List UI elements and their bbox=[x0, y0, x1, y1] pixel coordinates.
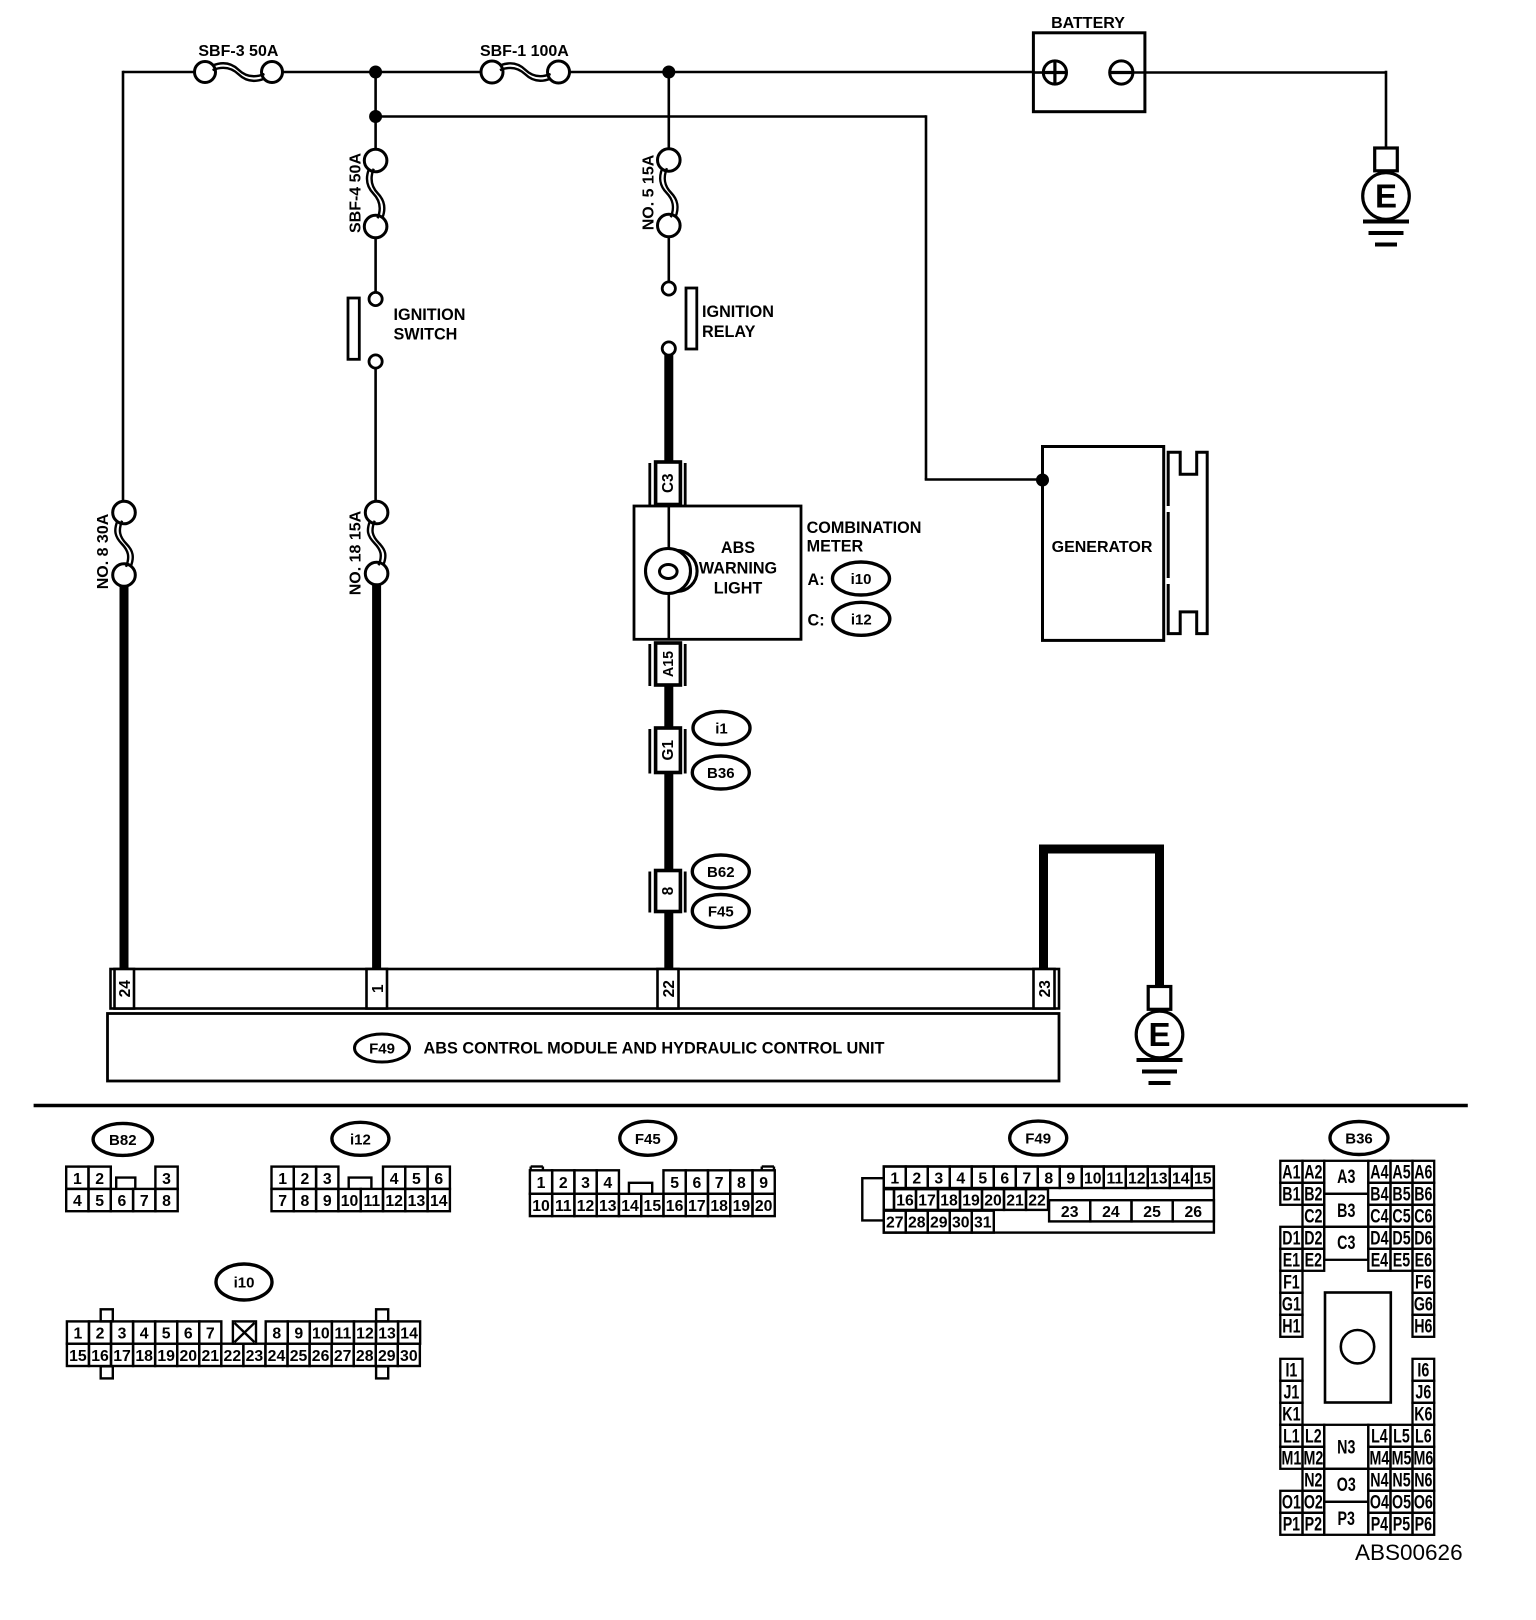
svg-text:4: 4 bbox=[140, 1326, 149, 1343]
svg-text:N6: N6 bbox=[1414, 1470, 1432, 1491]
svg-text:9: 9 bbox=[1066, 1170, 1075, 1187]
svg-text:24: 24 bbox=[268, 1348, 286, 1365]
svg-text:A3: A3 bbox=[1337, 1166, 1355, 1187]
connector ref i10 oval bbox=[833, 562, 890, 595]
svg-text:10: 10 bbox=[312, 1326, 330, 1343]
svg-text:14: 14 bbox=[1172, 1170, 1190, 1187]
svg-text:19: 19 bbox=[962, 1193, 980, 1210]
svg-text:12: 12 bbox=[577, 1198, 595, 1215]
svg-text:19: 19 bbox=[157, 1348, 175, 1365]
wire ignition branch thick to pin 1 bbox=[372, 584, 381, 971]
svg-text:6: 6 bbox=[184, 1326, 193, 1343]
svg-text:METER: METER bbox=[807, 538, 864, 556]
node junction at ignition branch top bbox=[369, 66, 382, 79]
svg-text:B82: B82 bbox=[109, 1132, 137, 1149]
svg-text:M4: M4 bbox=[1370, 1448, 1390, 1469]
svg-text:O2: O2 bbox=[1304, 1492, 1323, 1513]
svg-text:26: 26 bbox=[312, 1348, 330, 1365]
svg-text:22: 22 bbox=[1028, 1193, 1046, 1210]
fuse SBF-3 50A bbox=[195, 62, 283, 83]
connector ref B36 oval bbox=[692, 756, 749, 789]
svg-text:4: 4 bbox=[390, 1171, 399, 1188]
connector ref F49 oval (unit) bbox=[355, 1034, 410, 1062]
svg-text:NO. 18 15A: NO. 18 15A bbox=[348, 510, 365, 595]
wire A15 to G1 (thick) bbox=[664, 685, 673, 729]
svg-text:C3: C3 bbox=[1337, 1232, 1355, 1253]
svg-text:D4: D4 bbox=[1370, 1228, 1389, 1249]
svg-text:24: 24 bbox=[1102, 1204, 1120, 1221]
svg-text:B3: B3 bbox=[1337, 1200, 1355, 1221]
svg-text:NO. 8 30A: NO. 8 30A bbox=[95, 513, 112, 589]
svg-text:4: 4 bbox=[956, 1170, 965, 1187]
svg-text:25: 25 bbox=[1143, 1204, 1161, 1221]
connector B36 oval bbox=[1330, 1122, 1388, 1155]
wire junction drop bbox=[374, 72, 377, 117]
wire between SBF-3 and SBF-1 bbox=[283, 71, 482, 74]
svg-text:5: 5 bbox=[162, 1326, 171, 1343]
svg-text:L1: L1 bbox=[1283, 1426, 1300, 1447]
svg-text:SBF-1 100A: SBF-1 100A bbox=[480, 43, 569, 60]
svg-text:E2: E2 bbox=[1305, 1250, 1322, 1271]
connector i12 pin grid bbox=[272, 1167, 450, 1212]
svg-text:2: 2 bbox=[301, 1171, 310, 1188]
svg-text:G6: G6 bbox=[1414, 1294, 1433, 1315]
pin 24 bbox=[115, 969, 135, 1009]
svg-text:22: 22 bbox=[661, 980, 678, 997]
svg-text:N3: N3 bbox=[1337, 1437, 1355, 1458]
svg-text:12: 12 bbox=[1128, 1170, 1146, 1187]
ignition relay body bbox=[686, 288, 697, 349]
svg-text:1: 1 bbox=[537, 1175, 546, 1192]
svg-text:L2: L2 bbox=[1305, 1426, 1322, 1447]
combination meter box bbox=[634, 506, 801, 639]
ground E (ABS unit) bbox=[1136, 987, 1183, 1084]
ABS warning light bulb bbox=[656, 550, 697, 591]
svg-text:4: 4 bbox=[73, 1193, 82, 1210]
svg-text:M2: M2 bbox=[1303, 1448, 1323, 1469]
connector F45 pin grid bbox=[530, 1167, 775, 1217]
svg-text:ABS: ABS bbox=[721, 539, 755, 557]
wire second horizontal to generator branch bbox=[376, 115, 926, 118]
svg-text:5: 5 bbox=[670, 1175, 679, 1192]
svg-text:O1: O1 bbox=[1282, 1492, 1301, 1513]
svg-text:M1: M1 bbox=[1282, 1448, 1302, 1469]
svg-text:D1: D1 bbox=[1282, 1228, 1300, 1249]
svg-text:16: 16 bbox=[91, 1348, 109, 1365]
svg-text:M5: M5 bbox=[1392, 1448, 1412, 1469]
svg-text:i12: i12 bbox=[851, 611, 872, 628]
svg-text:C6: C6 bbox=[1414, 1206, 1432, 1227]
connector G1 bbox=[650, 728, 685, 774]
svg-text:5: 5 bbox=[412, 1171, 421, 1188]
svg-text:20: 20 bbox=[179, 1348, 197, 1365]
svg-text:H1: H1 bbox=[1282, 1316, 1300, 1337]
svg-text:7: 7 bbox=[140, 1193, 149, 1210]
svg-text:4: 4 bbox=[603, 1175, 612, 1192]
svg-text:13: 13 bbox=[599, 1198, 617, 1215]
svg-text:27: 27 bbox=[334, 1348, 352, 1365]
wire battery positive feed (top horizontal) bbox=[123, 71, 195, 74]
svg-text:N2: N2 bbox=[1304, 1470, 1322, 1491]
svg-text:8: 8 bbox=[660, 886, 677, 895]
svg-text:N4: N4 bbox=[1370, 1470, 1389, 1491]
svg-text:K1: K1 bbox=[1282, 1404, 1300, 1425]
wire generator branch vertical bbox=[925, 115, 928, 479]
svg-text:11: 11 bbox=[1106, 1170, 1123, 1187]
svg-text:M6: M6 bbox=[1413, 1448, 1433, 1469]
svg-text:B36: B36 bbox=[1345, 1131, 1373, 1148]
svg-text:ABS CONTROL MODULE AND HYDRAUL: ABS CONTROL MODULE AND HYDRAULIC CONTROL… bbox=[424, 1040, 885, 1058]
svg-text:1: 1 bbox=[278, 1171, 287, 1188]
connector ref i12 oval bbox=[833, 602, 890, 635]
svg-text:i10: i10 bbox=[851, 571, 872, 588]
svg-text:ABS00626: ABS00626 bbox=[1355, 1540, 1463, 1565]
svg-text:F45: F45 bbox=[708, 904, 734, 921]
svg-text:23: 23 bbox=[246, 1348, 264, 1365]
svg-text:F49: F49 bbox=[369, 1041, 395, 1058]
svg-text:P1: P1 bbox=[1283, 1514, 1300, 1535]
svg-text:D6: D6 bbox=[1414, 1228, 1432, 1249]
svg-text:C:: C: bbox=[808, 611, 825, 629]
svg-text:22: 22 bbox=[224, 1348, 242, 1365]
ignition switch SW contacts bbox=[369, 292, 382, 305]
node junction at second wire bbox=[369, 110, 382, 123]
svg-text:P5: P5 bbox=[1393, 1514, 1410, 1535]
svg-text:1: 1 bbox=[74, 1326, 83, 1343]
svg-text:A15: A15 bbox=[661, 651, 677, 677]
svg-text:11: 11 bbox=[555, 1198, 572, 1215]
svg-text:28: 28 bbox=[356, 1348, 374, 1365]
svg-text:7: 7 bbox=[715, 1175, 724, 1192]
svg-text:17: 17 bbox=[688, 1198, 706, 1215]
svg-text:P4: P4 bbox=[1371, 1514, 1389, 1535]
connector A15 bbox=[650, 643, 685, 686]
svg-text:25: 25 bbox=[290, 1348, 308, 1365]
pin 23 bbox=[1034, 969, 1055, 1009]
svg-text:2: 2 bbox=[96, 1326, 105, 1343]
svg-text:13: 13 bbox=[1150, 1170, 1168, 1187]
separator line bbox=[34, 1104, 1468, 1108]
svg-text:3: 3 bbox=[118, 1326, 127, 1343]
svg-text:6: 6 bbox=[434, 1171, 443, 1188]
battery B box bbox=[1033, 33, 1145, 112]
svg-text:SBF-4 50A: SBF-4 50A bbox=[348, 153, 365, 233]
svg-text:29: 29 bbox=[378, 1348, 396, 1365]
svg-text:27: 27 bbox=[886, 1215, 904, 1232]
svg-text:1: 1 bbox=[890, 1170, 899, 1187]
connector F49 pin grid bbox=[862, 1167, 1214, 1233]
svg-text:24: 24 bbox=[117, 980, 134, 998]
ABS unit pin band bbox=[111, 969, 1060, 1009]
generator connector bracket bbox=[1168, 452, 1207, 633]
svg-text:6: 6 bbox=[118, 1193, 127, 1210]
svg-text:14: 14 bbox=[430, 1193, 448, 1210]
svg-text:K6: K6 bbox=[1414, 1404, 1432, 1425]
svg-text:21: 21 bbox=[1006, 1193, 1024, 1210]
svg-text:7: 7 bbox=[206, 1326, 215, 1343]
svg-text:C3: C3 bbox=[660, 473, 677, 493]
svg-text:C4: C4 bbox=[1370, 1206, 1389, 1227]
svg-text:18: 18 bbox=[135, 1348, 153, 1365]
svg-text:6: 6 bbox=[1000, 1170, 1009, 1187]
svg-text:10: 10 bbox=[1084, 1170, 1102, 1187]
battery positive terminal bbox=[1043, 61, 1066, 84]
svg-text:26: 26 bbox=[1185, 1204, 1203, 1221]
svg-text:A5: A5 bbox=[1392, 1162, 1410, 1183]
svg-text:10: 10 bbox=[532, 1198, 550, 1215]
svg-text:14: 14 bbox=[400, 1326, 418, 1343]
svg-text:LIGHT: LIGHT bbox=[714, 580, 763, 598]
svg-text:9: 9 bbox=[323, 1193, 332, 1210]
svg-text:16: 16 bbox=[896, 1193, 914, 1210]
svg-text:8: 8 bbox=[1044, 1170, 1053, 1187]
svg-text:I6: I6 bbox=[1417, 1360, 1429, 1381]
svg-text:A:: A: bbox=[808, 571, 825, 589]
svg-text:3: 3 bbox=[934, 1170, 943, 1187]
svg-text:D2: D2 bbox=[1304, 1228, 1322, 1249]
svg-text:8: 8 bbox=[301, 1193, 310, 1210]
svg-text:E4: E4 bbox=[1371, 1250, 1389, 1271]
svg-text:8: 8 bbox=[162, 1193, 171, 1210]
svg-text:5: 5 bbox=[978, 1170, 987, 1187]
svg-text:12: 12 bbox=[356, 1326, 374, 1343]
svg-text:E6: E6 bbox=[1415, 1250, 1432, 1271]
svg-text:O4: O4 bbox=[1370, 1492, 1390, 1513]
svg-text:21: 21 bbox=[202, 1348, 220, 1365]
svg-text:30: 30 bbox=[952, 1215, 970, 1232]
svg-text:6: 6 bbox=[692, 1175, 701, 1192]
wire lamp to A15 bbox=[667, 593, 670, 640]
svg-text:E: E bbox=[1148, 1016, 1170, 1053]
svg-text:i10: i10 bbox=[234, 1275, 255, 1292]
wire NO.5 to ignition relay bbox=[667, 237, 670, 283]
svg-text:B62: B62 bbox=[707, 864, 735, 881]
svg-text:29: 29 bbox=[930, 1215, 948, 1232]
svg-text:SWITCH: SWITCH bbox=[394, 326, 458, 344]
connector ref F45 oval bbox=[692, 895, 749, 928]
svg-text:B5: B5 bbox=[1392, 1184, 1410, 1205]
wire pin 23 to ground (thick L) bbox=[1044, 849, 1160, 987]
svg-text:2: 2 bbox=[912, 1170, 921, 1187]
svg-text:COMBINATION: COMBINATION bbox=[807, 519, 922, 537]
svg-text:B4: B4 bbox=[1370, 1184, 1389, 1205]
svg-text:8: 8 bbox=[737, 1175, 746, 1192]
svg-text:5: 5 bbox=[95, 1193, 104, 1210]
svg-text:A2: A2 bbox=[1304, 1162, 1322, 1183]
svg-text:L4: L4 bbox=[1371, 1426, 1388, 1447]
svg-text:i12: i12 bbox=[350, 1131, 371, 1148]
svg-text:2: 2 bbox=[559, 1175, 568, 1192]
wire into battery positive bbox=[1034, 71, 1044, 74]
connector i10 pin grid bbox=[67, 1309, 420, 1378]
svg-text:NO. 5 15A: NO. 5 15A bbox=[641, 154, 658, 230]
svg-text:RELAY: RELAY bbox=[702, 323, 756, 341]
svg-text:IGNITION: IGNITION bbox=[394, 306, 466, 324]
svg-text:23: 23 bbox=[1037, 980, 1054, 998]
svg-text:SBF-3 50A: SBF-3 50A bbox=[198, 43, 278, 60]
connector 8 bbox=[650, 871, 685, 913]
fuse NO. 5 15A bbox=[658, 149, 681, 237]
svg-text:11: 11 bbox=[335, 1326, 352, 1343]
svg-text:B2: B2 bbox=[1304, 1184, 1322, 1205]
svg-text:20: 20 bbox=[984, 1193, 1002, 1210]
svg-text:E1: E1 bbox=[1283, 1250, 1300, 1271]
svg-text:N5: N5 bbox=[1392, 1470, 1410, 1491]
svg-text:17: 17 bbox=[918, 1193, 936, 1210]
battery negative terminal bbox=[1110, 61, 1133, 84]
connector i10 oval bbox=[216, 1264, 272, 1300]
pin 1 bbox=[367, 969, 388, 1009]
generator box bbox=[1043, 447, 1164, 641]
svg-text:O6: O6 bbox=[1414, 1492, 1433, 1513]
svg-text:E: E bbox=[1375, 178, 1397, 215]
svg-text:P6: P6 bbox=[1415, 1514, 1432, 1535]
svg-text:19: 19 bbox=[733, 1198, 751, 1215]
svg-text:1: 1 bbox=[370, 984, 387, 993]
node junction at generator bbox=[1036, 474, 1049, 487]
svg-text:31: 31 bbox=[974, 1215, 992, 1232]
svg-text:3: 3 bbox=[162, 1171, 171, 1188]
svg-text:A4: A4 bbox=[1370, 1162, 1389, 1183]
svg-text:15: 15 bbox=[644, 1198, 662, 1215]
svg-text:15: 15 bbox=[69, 1348, 87, 1365]
svg-text:A6: A6 bbox=[1414, 1162, 1432, 1183]
fuse SBF-1 100A bbox=[481, 61, 570, 83]
svg-text:18: 18 bbox=[940, 1193, 958, 1210]
svg-text:9: 9 bbox=[759, 1175, 768, 1192]
svg-text:3: 3 bbox=[581, 1175, 590, 1192]
connector B82 oval bbox=[93, 1123, 152, 1155]
ABS unit main box bbox=[108, 1014, 1060, 1082]
svg-text:16: 16 bbox=[666, 1198, 684, 1215]
svg-text:7: 7 bbox=[278, 1193, 287, 1210]
wire left branch vertical bbox=[122, 71, 125, 502]
connector B82 pin grid bbox=[66, 1167, 178, 1212]
svg-text:23: 23 bbox=[1061, 1204, 1079, 1221]
svg-text:WARNING: WARNING bbox=[699, 559, 777, 577]
connector F45 oval bbox=[620, 1121, 676, 1155]
wire generator branch horizontal bbox=[925, 478, 1043, 481]
svg-text:A1: A1 bbox=[1282, 1162, 1300, 1183]
wire into lamp bbox=[667, 506, 670, 551]
wire battery to ground E bbox=[1132, 71, 1386, 74]
svg-text:L6: L6 bbox=[1415, 1426, 1432, 1447]
svg-text:BATTERY: BATTERY bbox=[1051, 15, 1125, 32]
connector F49 oval bbox=[1010, 1121, 1067, 1155]
svg-text:8: 8 bbox=[272, 1326, 281, 1343]
wire relay to connector C3 (thick) bbox=[664, 355, 673, 463]
pin 22 bbox=[658, 969, 679, 1009]
wire G1 to 8 (thick) bbox=[664, 773, 673, 873]
svg-text:J1: J1 bbox=[1283, 1382, 1299, 1403]
connector C3 bbox=[650, 462, 685, 506]
svg-text:F1: F1 bbox=[1283, 1272, 1300, 1293]
wire ignition switch to NO.18 fuse bbox=[374, 368, 377, 502]
svg-text:IGNITION: IGNITION bbox=[702, 303, 774, 321]
svg-text:C2: C2 bbox=[1304, 1206, 1322, 1227]
svg-text:G1: G1 bbox=[660, 740, 677, 761]
connector i12 oval bbox=[332, 1122, 389, 1155]
fuse NO. 18 15A bbox=[365, 501, 388, 585]
svg-text:28: 28 bbox=[908, 1215, 926, 1232]
svg-text:10: 10 bbox=[341, 1193, 359, 1210]
svg-text:7: 7 bbox=[1022, 1170, 1031, 1187]
svg-text:G1: G1 bbox=[1282, 1294, 1301, 1315]
svg-text:9: 9 bbox=[294, 1326, 303, 1343]
svg-text:D5: D5 bbox=[1392, 1228, 1410, 1249]
ignition relay contacts bbox=[662, 282, 675, 295]
svg-text:H6: H6 bbox=[1414, 1316, 1432, 1337]
wire ignition branch upper bbox=[374, 117, 377, 151]
svg-text:B36: B36 bbox=[707, 765, 735, 782]
svg-text:B6: B6 bbox=[1414, 1184, 1432, 1205]
svg-text:11: 11 bbox=[363, 1193, 380, 1210]
wire left branch thick to pin 24 bbox=[120, 585, 129, 970]
connector ref i1 oval bbox=[693, 712, 750, 745]
svg-text:13: 13 bbox=[378, 1326, 396, 1343]
svg-text:18: 18 bbox=[710, 1198, 728, 1215]
svg-text:P3: P3 bbox=[1338, 1508, 1355, 1529]
svg-text:17: 17 bbox=[113, 1348, 131, 1365]
svg-text:O5: O5 bbox=[1392, 1492, 1411, 1513]
wire 8 to pin 22 (thick) bbox=[664, 912, 673, 971]
svg-text:20: 20 bbox=[755, 1198, 773, 1215]
svg-text:12: 12 bbox=[385, 1193, 403, 1210]
ignition switch body bbox=[348, 298, 359, 359]
ground E (battery) bbox=[1363, 148, 1410, 245]
fuse NO. 8 30A bbox=[113, 501, 136, 586]
svg-text:14: 14 bbox=[621, 1198, 639, 1215]
svg-text:30: 30 bbox=[400, 1348, 418, 1365]
svg-text:1: 1 bbox=[73, 1171, 82, 1188]
svg-text:P2: P2 bbox=[1305, 1514, 1322, 1535]
svg-text:F49: F49 bbox=[1025, 1131, 1051, 1148]
fuse SBF-4 50A bbox=[364, 149, 387, 238]
svg-text:E5: E5 bbox=[1393, 1250, 1410, 1271]
svg-text:L5: L5 bbox=[1393, 1426, 1410, 1447]
wire SBF-1 to battery bbox=[570, 71, 1035, 74]
svg-text:13: 13 bbox=[408, 1193, 426, 1210]
svg-text:15: 15 bbox=[1194, 1170, 1212, 1187]
svg-text:2: 2 bbox=[95, 1171, 104, 1188]
node junction at relay branch top bbox=[662, 66, 675, 79]
wire relay branch upper bbox=[667, 71, 670, 150]
svg-text:C5: C5 bbox=[1392, 1206, 1410, 1227]
svg-text:F45: F45 bbox=[635, 1131, 661, 1148]
connector ref B62 oval bbox=[692, 855, 749, 888]
svg-text:I1: I1 bbox=[1285, 1360, 1297, 1381]
connector B36 pin grid bbox=[1280, 1161, 1434, 1535]
svg-text:3: 3 bbox=[323, 1171, 332, 1188]
svg-text:O3: O3 bbox=[1337, 1474, 1356, 1495]
svg-text:J6: J6 bbox=[1415, 1382, 1431, 1403]
svg-text:F6: F6 bbox=[1415, 1272, 1432, 1293]
svg-text:i1: i1 bbox=[715, 721, 728, 738]
svg-text:GENERATOR: GENERATOR bbox=[1052, 539, 1153, 556]
svg-text:B1: B1 bbox=[1282, 1184, 1300, 1205]
wire SBF-4 to ignition switch bbox=[374, 237, 377, 293]
